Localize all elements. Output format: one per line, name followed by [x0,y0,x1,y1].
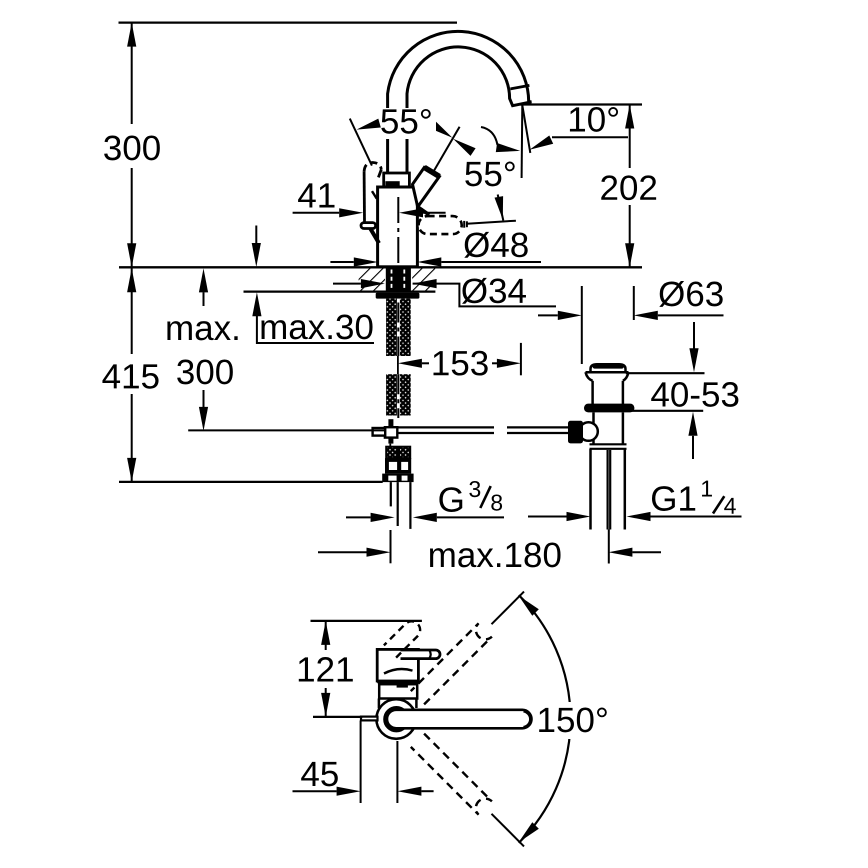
dim 153 arrow right [497,359,521,368]
dim 415 arrow down [127,458,136,482]
dim max180 tail right [632,551,661,553]
label d63 [659,281,722,307]
dim max30 arrow down [252,243,261,267]
upright handle inner edge [372,191,377,199]
dim 202 arrow down [625,243,634,267]
label 415 [102,364,158,388]
top reference line [119,22,458,24]
max180 ext line left [390,530,392,563]
label 40-53 [651,382,738,407]
label 41 [298,183,334,207]
pop-up rod vertical (black) [388,419,393,443]
label 45 [301,762,338,786]
label 10deg [570,107,618,132]
dim d63 line right (underline) [658,314,724,316]
drain body right [622,381,625,404]
flange right curve [623,372,629,381]
55deg1 arrow left [357,119,381,130]
dim d34 line left [333,283,361,285]
spray tip mark 1 [463,221,465,228]
hose-end reference line (415 bottom) [119,481,383,483]
plan: radial ext line up [492,592,525,625]
plan: collar left lower [378,699,381,709]
lever handle (solid, tilted position) [413,167,440,207]
hose line 1 [390,482,392,506]
55deg2 ext line (solid handle axis) [434,127,460,172]
dim 300 arrow down [127,243,136,267]
150deg arrow bottom [519,822,539,842]
55deg1 ext line (dashed handle axis) [350,119,372,166]
counter top line [119,266,642,268]
mounting nut (black) [376,293,420,299]
label 202 [601,175,656,200]
upright handle right edge [378,170,381,178]
pop-up rod top line [397,426,494,428]
dim 45 line left [293,790,337,792]
tailpipe left [589,449,592,530]
drain body right lower [622,412,625,444]
plan: wall-side tab [361,717,378,721]
dim d63 line left [538,314,558,316]
dim 41 arrow left [399,208,423,217]
dim 121 arrow down [321,693,330,717]
rod right bottom line [507,432,569,434]
55deg2 lower arrow [495,196,504,219]
pop-up rod thin line left [188,429,385,431]
drain body left [591,381,594,404]
d63 ext line left [581,286,583,364]
shank in counter hole (dark) [386,268,411,291]
label 55deg 2 [465,162,514,187]
dim max300 line upper [203,292,205,316]
spray leader line [467,221,516,224]
label max 300 [177,360,233,385]
dim d48 line left [330,261,353,263]
plan: radial ext line down [492,814,525,847]
drain centerline extension [608,530,610,564]
drain flange top edge [586,371,629,374]
dim 40-53 upper line [693,322,695,349]
dim max30 lower leader + underline [257,316,374,343]
55deg2 arrow upper [453,139,476,156]
hose line 3 [409,482,411,529]
dim max180 arrow left [608,548,632,557]
dim G114 line right [651,516,742,518]
dim 45 ext left [360,721,362,804]
dim 153 arrow left [398,359,422,368]
dim 202 arrow up [625,105,634,129]
10deg spray line [522,105,530,153]
dim 121 arrow up [321,621,330,645]
handle cap thick band [424,167,439,176]
dim d63 arrow right [558,311,582,320]
plan: spout tube (solid) [387,710,532,729]
label 55deg 1 [381,109,430,134]
dim max30 upper stub [255,226,257,247]
shank centerline [397,269,399,357]
upright handle dashed cap [364,162,381,171]
plan: blade cap inner line [430,650,431,658]
tailpipe inner right [609,450,611,530]
rod stub below tee [389,444,391,447]
handle pin bar [361,223,376,229]
dim 45 arrow right [337,787,361,796]
stud block [386,447,410,458]
dim 10deg leader [552,136,628,138]
dim 45 arrow left [397,787,421,796]
label 150deg [539,708,607,733]
spout outlet reference line [520,103,642,105]
dim 41 arrow right [339,208,363,217]
counter cross-section hatch left [359,268,385,291]
dim d34 arrow left [413,279,437,288]
label max. [167,321,237,340]
dim d48 line right [441,261,541,263]
rod left coupler box [373,428,386,436]
rod ball joint [579,422,598,441]
dim 121 top tick [311,620,422,622]
coupling line 1 [590,443,627,445]
40-53 ref line bottom [631,410,703,412]
plan: collar right lower [415,699,418,709]
dim d34 arrow right [361,279,385,288]
dim 41 tail line [423,212,446,214]
dim G114 arrow right [567,512,591,521]
plan: tube aerator inner arc [524,711,531,727]
label 153 [434,351,488,376]
dim G114 line left [528,516,567,518]
dim 415 arrow up [127,268,136,292]
dim 45 ext right [396,741,398,803]
hose nuts bar [382,474,413,483]
plan: lever blade (solid) [401,650,441,659]
dim G38 arrow left [413,513,437,522]
pop-up rod bottom line [397,432,494,434]
dim 300 line [131,23,133,268]
thread sliver 2 [403,270,405,291]
55deg2 arc [481,127,498,145]
150deg arrow top [519,596,539,616]
spray tip mark 2 [466,221,468,227]
dim G38 line right [437,516,504,518]
flange left curve [586,372,593,381]
150deg swivel arc [519,595,571,843]
dim 300 arrow up [127,23,136,47]
cartridge cap under pipe [384,173,410,187]
counter cross-section hatch right [412,268,435,291]
55deg2 lower ext line [498,195,504,221]
drain O-ring gasket (black) [584,404,634,413]
plan: lever dashed (raised) [384,621,420,657]
dim d48 arrow left [417,257,441,266]
dim 40-53 lower line [692,436,694,459]
G1/4 slash [713,496,724,513]
dim 10deg arrow [530,136,554,150]
plan: swung spout dashed (up) [411,623,492,704]
d63 ext line right [633,286,635,320]
hose line 2 [397,482,399,526]
dim 121 bottom tick [313,716,362,718]
plan: base collar [379,684,417,698]
plug cap dark band [593,364,625,369]
dim 121 line [325,621,327,717]
thread sliver 1 [391,270,393,291]
dim 41 line left [293,212,340,214]
plan: collar tab mark [397,684,408,687]
plan: spout outer circle [376,699,416,739]
dim 40-53 arrow down [689,348,698,372]
label d48 [464,232,527,258]
hex connector block [385,458,411,474]
rod knob (black) [568,421,583,444]
plan: spout inner dark ring [386,709,407,730]
dim max300 line lower [203,388,205,407]
G3/8 slash [480,486,490,508]
dim G38 line left [346,516,371,518]
rod clamp box [385,427,397,437]
label G1 1/4 [652,486,695,511]
dim max30 arrow up [252,292,261,316]
vertical line from spout tip [521,105,524,178]
dim 40-53 arrow up [688,412,697,436]
handle root wedge edge [418,207,430,215]
label max.180 [430,543,561,568]
black cartridge bar [385,181,399,187]
55deg1 arrow right [430,121,453,138]
aerator band on spout tip [510,85,529,89]
body centerline dash-dot [397,197,399,266]
dim max180 arrow right [367,548,391,557]
tailpipe inner left [606,450,608,530]
dim 153 end bar [520,343,522,375]
label max.30 [261,315,372,340]
counter bottom line [244,290,436,292]
label d34 [462,278,526,304]
plan: collar line [377,681,418,683]
threaded shank upper [386,299,411,356]
40-53 ref line top [626,372,705,374]
threaded shank lower [386,374,411,415]
pull-out spray (dashed) [419,216,462,234]
label 300 [104,136,160,161]
plan: body block [377,649,418,681]
label 121 [299,657,353,681]
pop-up plug cap [591,364,626,371]
plan: handle dome curve [384,669,413,674]
dim d48 arrow right [354,257,378,266]
centerline through break [397,356,399,374]
dim d63 arrow left [634,311,658,320]
dim 202 line [629,105,631,268]
plan: swung spout dashed (down) [411,734,492,815]
dim 45 tail [421,790,433,792]
dim d34 leader + underline [413,284,556,307]
dim 415 line [131,268,133,482]
dim G38 arrow right [371,513,395,522]
faucet body (side view) [378,187,418,267]
55deg2 arc arrow [496,143,520,152]
dim G114 arrow left [627,512,651,521]
coupling line 2 [590,448,627,450]
label G3/8 [439,487,462,512]
dim max180 line left [318,551,367,553]
spout arc tube with left leg [388,31,532,173]
drain body left lower [592,412,595,444]
dim max300 arrow down [199,407,208,431]
upright handle left edge [363,171,366,222]
rod right top line [507,426,569,428]
dim max300 arrow up [199,268,208,292]
tailpipe right [624,449,627,530]
pin lower thick edge [370,229,379,244]
